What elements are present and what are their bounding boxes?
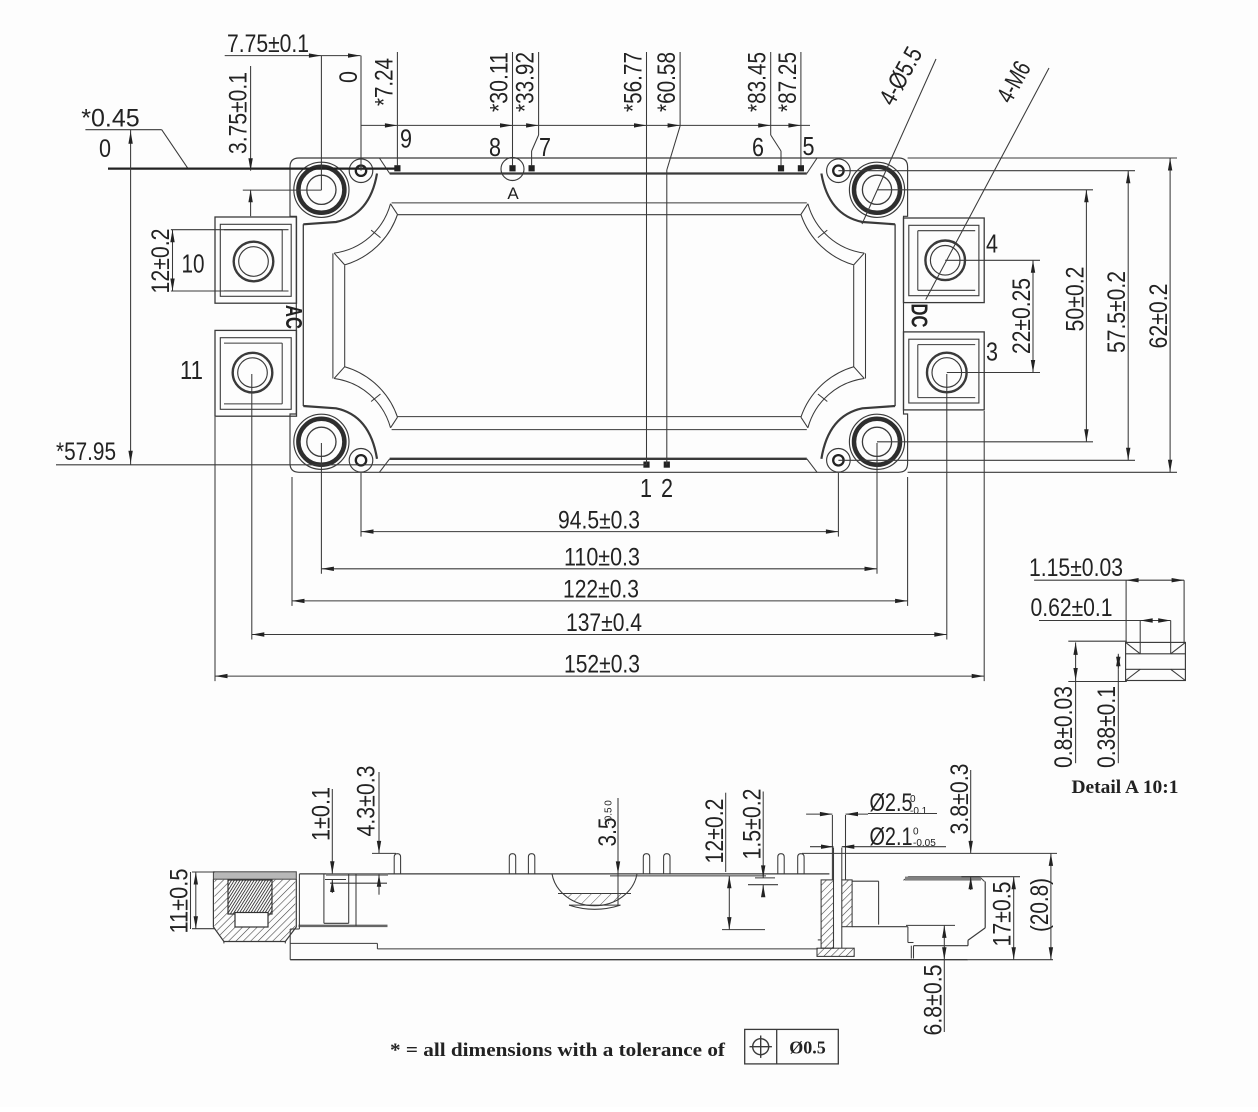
svg-text:*60.58: *60.58 — [653, 52, 681, 112]
svg-text:*7.24: *7.24 — [370, 58, 398, 106]
svg-text:4: 4 — [986, 229, 998, 259]
svg-text:7.75±0.1: 7.75±0.1 — [227, 30, 309, 58]
svg-text:*57.95: *57.95 — [56, 438, 116, 466]
svg-text:(20.8): (20.8) — [1026, 878, 1054, 932]
svg-text:*30.11: *30.11 — [486, 52, 514, 112]
svg-text:1±0.1: 1±0.1 — [308, 787, 336, 841]
svg-text:2: 2 — [661, 473, 673, 503]
svg-text:3.75±0.1: 3.75±0.1 — [225, 72, 253, 154]
svg-text:0: 0 — [910, 794, 916, 805]
svg-text:0: 0 — [335, 71, 363, 83]
svg-text:12±0.2: 12±0.2 — [147, 229, 175, 294]
svg-text:122±0.3: 122±0.3 — [563, 576, 639, 604]
svg-text:5: 5 — [803, 131, 815, 161]
svg-text:DC: DC — [907, 304, 933, 328]
svg-text:12±0.2: 12±0.2 — [701, 799, 729, 864]
svg-text:AC: AC — [281, 305, 307, 329]
svg-text:0.62±0.1: 0.62±0.1 — [1031, 594, 1113, 622]
svg-text:0: 0 — [604, 800, 615, 806]
svg-text:*87.25: *87.25 — [774, 52, 802, 112]
svg-text:9: 9 — [400, 124, 412, 154]
svg-text:-0.05: -0.05 — [913, 838, 936, 849]
svg-text:22±0.25: 22±0.25 — [1008, 278, 1036, 354]
svg-text:6.8±0.5: 6.8±0.5 — [920, 965, 948, 1036]
svg-text:17±0.5: 17±0.5 — [989, 882, 1017, 947]
svg-text:3: 3 — [986, 337, 998, 367]
svg-text:4.3±0.3: 4.3±0.3 — [353, 766, 381, 837]
svg-text:1.15±0.03: 1.15±0.03 — [1029, 554, 1123, 582]
svg-text:11±0.5: 11±0.5 — [166, 869, 194, 934]
svg-text:0.8±0.03: 0.8±0.03 — [1050, 686, 1078, 768]
svg-text:Ø0.5: Ø0.5 — [789, 1038, 826, 1058]
svg-text:*83.45: *83.45 — [744, 52, 772, 112]
svg-text:0: 0 — [913, 827, 919, 838]
svg-text:94.5±0.3: 94.5±0.3 — [558, 507, 640, 535]
svg-text:1: 1 — [640, 473, 652, 503]
svg-text:50±0.2: 50±0.2 — [1062, 267, 1090, 332]
svg-text:110±0.3: 110±0.3 — [564, 544, 640, 572]
svg-text:*33.92: *33.92 — [512, 52, 540, 112]
svg-text:-0.1: -0.1 — [910, 806, 928, 817]
svg-text:* = all dimensions with a tole: * = all dimensions with a tolerance of — [390, 1040, 726, 1061]
svg-text:0: 0 — [99, 135, 111, 163]
svg-text:-0.5: -0.5 — [604, 807, 615, 825]
svg-text:Ø2.5: Ø2.5 — [870, 789, 913, 817]
svg-text:7: 7 — [539, 132, 551, 162]
svg-text:*56.77: *56.77 — [620, 52, 648, 112]
svg-text:0.38±0.1: 0.38±0.1 — [1093, 686, 1121, 768]
svg-text:*0.45: *0.45 — [81, 105, 139, 133]
svg-text:A: A — [507, 184, 519, 203]
svg-text:10: 10 — [182, 249, 205, 279]
svg-text:8: 8 — [489, 132, 501, 162]
svg-text:11: 11 — [180, 355, 203, 385]
svg-text:57.5±0.2: 57.5±0.2 — [1103, 271, 1131, 353]
svg-text:137±0.4: 137±0.4 — [566, 609, 642, 637]
svg-text:6: 6 — [752, 132, 764, 162]
svg-text:Detail A 10:1: Detail A 10:1 — [1072, 777, 1179, 798]
svg-text:62±0.2: 62±0.2 — [1145, 284, 1173, 349]
svg-text:1.5±0.2: 1.5±0.2 — [739, 789, 767, 860]
svg-text:152±0.3: 152±0.3 — [564, 651, 640, 679]
svg-text:3.8±0.3: 3.8±0.3 — [946, 764, 974, 835]
